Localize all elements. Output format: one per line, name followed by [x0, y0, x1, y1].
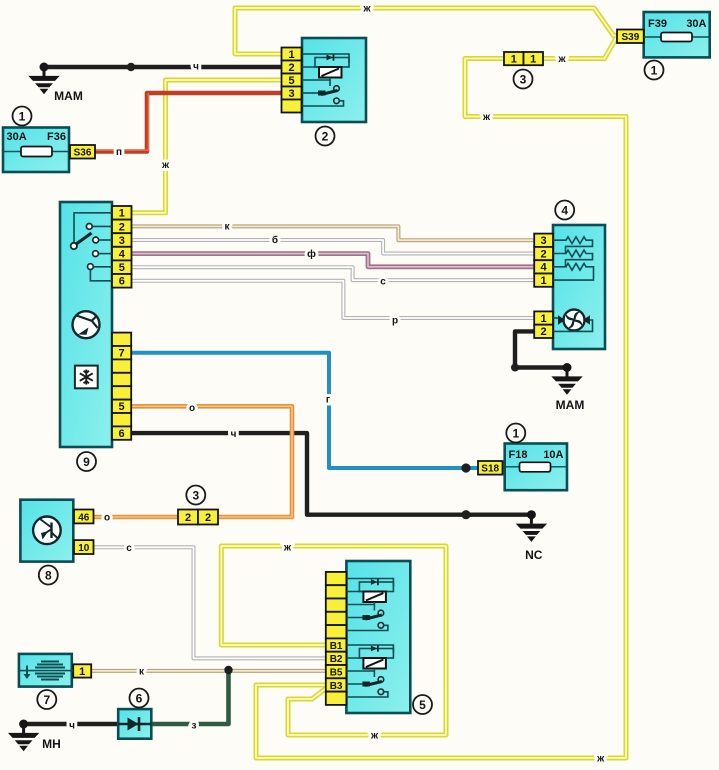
svg-text:F18: F18 — [509, 449, 528, 461]
svg-text:б: б — [272, 234, 278, 246]
svg-text:5: 5 — [288, 75, 294, 87]
svg-text:2: 2 — [322, 129, 329, 143]
svg-text:ж: ж — [161, 160, 170, 171]
svg-text:F36: F36 — [47, 131, 66, 143]
svg-text:3: 3 — [192, 488, 199, 502]
svg-text:1: 1 — [511, 54, 517, 66]
svg-text:п: п — [116, 147, 122, 158]
svg-text:30A: 30A — [7, 131, 27, 143]
svg-text:ж: ж — [557, 54, 566, 65]
svg-text:ж: ж — [596, 754, 605, 765]
svg-text:р: р — [392, 316, 398, 327]
svg-text:ч: ч — [69, 721, 75, 732]
svg-text:с: с — [126, 543, 132, 554]
svg-text:1: 1 — [288, 49, 294, 61]
svg-text:8: 8 — [45, 568, 52, 582]
svg-text:3: 3 — [541, 235, 547, 247]
svg-text:1: 1 — [651, 63, 658, 77]
svg-text:1: 1 — [541, 275, 547, 287]
svg-text:4: 4 — [119, 249, 126, 261]
svg-text:2: 2 — [185, 512, 191, 524]
svg-text:1: 1 — [119, 208, 125, 220]
svg-text:6: 6 — [136, 691, 143, 705]
svg-text:2: 2 — [119, 221, 125, 233]
svg-text:4: 4 — [541, 262, 548, 274]
svg-text:5: 5 — [419, 698, 426, 712]
svg-text:10A: 10A — [543, 449, 563, 461]
svg-text:ж: ж — [362, 4, 371, 15]
svg-text:6: 6 — [119, 276, 125, 288]
svg-text:5: 5 — [119, 401, 125, 413]
svg-text:S39: S39 — [622, 32, 640, 43]
svg-text:1: 1 — [512, 426, 519, 440]
svg-text:МАМ: МАМ — [54, 89, 83, 103]
svg-text:3: 3 — [288, 88, 294, 100]
svg-text:1: 1 — [79, 666, 85, 678]
svg-text:МН: МН — [42, 737, 61, 751]
svg-text:S18: S18 — [481, 464, 499, 475]
svg-text:B1: B1 — [330, 641, 343, 652]
svg-text:F39: F39 — [648, 18, 667, 30]
svg-text:7: 7 — [43, 693, 50, 707]
svg-text:5: 5 — [119, 262, 125, 274]
svg-text:46: 46 — [78, 512, 90, 523]
svg-text:ч: ч — [193, 62, 199, 73]
svg-text:МАМ: МАМ — [556, 398, 585, 412]
svg-text:з: з — [192, 721, 197, 732]
svg-text:ф: ф — [307, 248, 316, 260]
svg-text:1: 1 — [541, 313, 547, 325]
svg-text:B5: B5 — [330, 668, 343, 679]
svg-text:ж: ж — [283, 543, 292, 554]
svg-text:ж: ж — [482, 112, 491, 123]
svg-text:с: с — [380, 277, 386, 288]
svg-text:10: 10 — [78, 543, 90, 554]
svg-text:NC: NC — [525, 548, 543, 562]
svg-text:2: 2 — [541, 248, 547, 260]
svg-text:г: г — [326, 395, 330, 406]
svg-text:о: о — [104, 513, 110, 524]
svg-text:7: 7 — [119, 348, 125, 360]
svg-text:ч: ч — [231, 429, 237, 440]
svg-text:3: 3 — [520, 72, 527, 86]
svg-text:30A: 30A — [686, 18, 706, 30]
svg-text:9: 9 — [83, 455, 90, 469]
svg-text:B2: B2 — [330, 654, 343, 665]
svg-text:4: 4 — [561, 203, 568, 217]
svg-text:B3: B3 — [330, 681, 343, 692]
svg-text:S36: S36 — [74, 148, 92, 159]
svg-text:2: 2 — [205, 512, 211, 524]
svg-text:3: 3 — [119, 235, 125, 247]
svg-text:6: 6 — [119, 428, 125, 440]
svg-text:2: 2 — [541, 326, 547, 338]
svg-text:2: 2 — [288, 62, 294, 74]
svg-text:о: о — [189, 403, 195, 414]
svg-text:1: 1 — [530, 54, 536, 66]
svg-text:1: 1 — [19, 109, 26, 123]
svg-text:ж: ж — [370, 731, 379, 742]
